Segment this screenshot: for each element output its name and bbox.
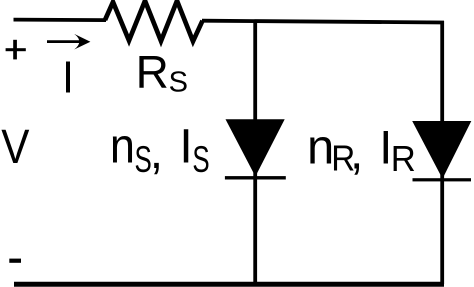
diode DS cathode bar xyxy=(225,176,286,179)
svg-text:I: I xyxy=(179,120,192,173)
current direction arrow xyxy=(47,34,90,50)
- terminal xyxy=(9,259,21,263)
svg-text:R: R xyxy=(391,138,416,179)
resistor RS xyxy=(105,1,203,42)
diode DS anode triangle xyxy=(226,119,285,176)
svg-text:R: R xyxy=(136,46,169,98)
wire: top rail to diode DR branch (vertical) xyxy=(440,21,444,284)
label I (current) xyxy=(66,62,70,93)
svg-text:n: n xyxy=(307,121,334,175)
svg-text:S: S xyxy=(169,67,188,99)
svg-text:V: V xyxy=(1,119,29,173)
svg-text:,: , xyxy=(150,126,163,179)
svg-text:S: S xyxy=(192,138,209,180)
wire: junction node to diode DS branch (vertical) xyxy=(253,21,257,284)
wire: resistor RS to top-right corner (top rail) xyxy=(202,21,444,23)
diode DR cathode bar xyxy=(413,178,472,181)
label nR, IR (diode DR parameters) xyxy=(307,120,416,179)
label nS, IS (diode DS parameters) xyxy=(110,118,210,180)
diode DR anode triangle xyxy=(412,121,471,179)
svg-text:n: n xyxy=(110,118,135,173)
label RS xyxy=(136,46,188,99)
wire: + terminal to resistor RS xyxy=(14,18,107,22)
+ terminal xyxy=(6,40,26,60)
svg-text:,: , xyxy=(350,127,363,180)
wire: bottom return rail xyxy=(14,282,444,287)
